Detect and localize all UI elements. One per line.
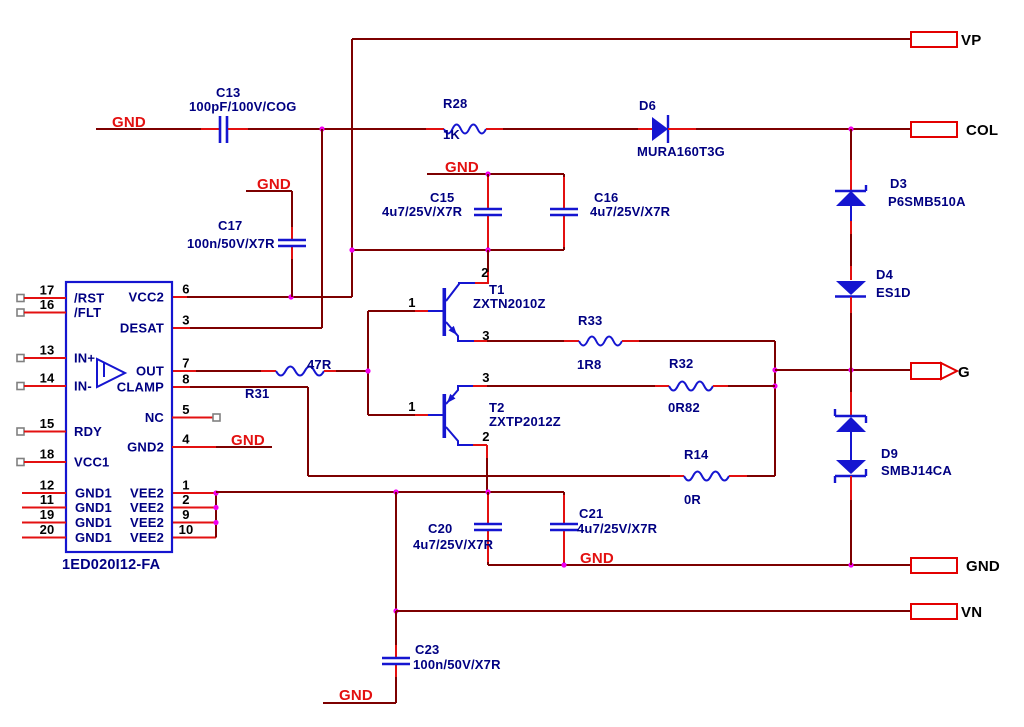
IC pin 5 NC label bbox=[145, 402, 190, 425]
svg-text:CLAMP: CLAMP bbox=[117, 380, 164, 395]
IC pin 2 VEE2 label bbox=[130, 492, 190, 515]
zener diode D3 bbox=[835, 176, 966, 209]
junction base node bbox=[365, 368, 370, 373]
junction VEE2 pin9 bbox=[213, 520, 218, 525]
svg-text:DESAT: DESAT bbox=[120, 321, 164, 336]
svg-text:11: 11 bbox=[40, 492, 54, 507]
svg-text:3: 3 bbox=[482, 370, 489, 385]
svg-text:1: 1 bbox=[408, 295, 415, 310]
svg-text:OUT: OUT bbox=[136, 364, 164, 379]
svg-text:17: 17 bbox=[40, 283, 55, 298]
svg-text:D4: D4 bbox=[876, 267, 894, 282]
capacitor C23 bbox=[382, 611, 501, 703]
svg-text:MURA160T3G: MURA160T3G bbox=[637, 144, 725, 159]
svg-text:RDY: RDY bbox=[74, 424, 102, 439]
wire D4 to G node bbox=[850, 297, 852, 370]
wire C13 to R28 bbox=[248, 128, 426, 130]
svg-text:R14: R14 bbox=[684, 447, 709, 462]
svg-text:14: 14 bbox=[40, 371, 55, 386]
junction VN branch bbox=[393, 489, 398, 494]
op-amp buffer symbol inside IC bbox=[97, 359, 125, 387]
junction VEE2 pin2 bbox=[213, 505, 218, 510]
wire CLAMP pin8 bbox=[172, 387, 308, 476]
diode D4 bbox=[835, 267, 911, 300]
IC pin 1 VEE2 label bbox=[130, 478, 190, 501]
svg-text:4u7/25V/X7R: 4u7/25V/X7R bbox=[382, 204, 463, 219]
svg-text:1: 1 bbox=[182, 478, 189, 493]
wire T2 emitter to R32 bbox=[473, 385, 655, 387]
wire VN vertical bbox=[395, 492, 397, 611]
svg-text:18: 18 bbox=[40, 447, 55, 462]
capacitor C13 bbox=[189, 85, 297, 143]
svg-text:VEE2: VEE2 bbox=[130, 515, 164, 530]
IC pin 9 VEE2 label bbox=[130, 507, 190, 530]
junction C15 top bbox=[485, 171, 490, 176]
svg-text:VEE2: VEE2 bbox=[130, 530, 164, 545]
junction right bus G branch bbox=[772, 367, 777, 372]
svg-text:GND1: GND1 bbox=[75, 530, 112, 545]
IC pin 18 VCC1 bbox=[17, 447, 109, 470]
wire C15-C16 bottom rail bbox=[352, 249, 564, 251]
resistor R14 bbox=[670, 447, 747, 507]
svg-text:9: 9 bbox=[182, 507, 189, 522]
svg-text:GND: GND bbox=[966, 558, 1000, 575]
junction COL node bbox=[848, 126, 853, 131]
IC pin 8 CLAMP label bbox=[117, 372, 190, 395]
svg-text:2: 2 bbox=[182, 492, 189, 507]
IC pin 6 VCC2 label bbox=[129, 282, 190, 305]
capacitor C21 bbox=[550, 492, 658, 565]
svg-text:100n/50V/X7R: 100n/50V/X7R bbox=[187, 236, 275, 251]
svg-text:4: 4 bbox=[182, 432, 190, 447]
svg-text:R32: R32 bbox=[669, 356, 693, 371]
svg-text:VN: VN bbox=[961, 604, 982, 621]
IC U1 1ED020I12-FA body bbox=[62, 282, 172, 573]
svg-text:VCC2: VCC2 bbox=[129, 290, 164, 305]
IC pin 4 GND2 label bbox=[127, 432, 190, 455]
svg-text:0R: 0R bbox=[684, 492, 701, 507]
wire D6 to COL bbox=[696, 128, 911, 130]
connector G bbox=[911, 363, 970, 381]
wire DESAT vertical bbox=[321, 129, 323, 328]
junction T2-C20 node bbox=[485, 489, 490, 494]
IC pin 15 RDY bbox=[17, 416, 102, 439]
connector COL bbox=[911, 122, 998, 139]
capacitor C15 bbox=[382, 174, 502, 250]
wire R33 to right bus bbox=[639, 341, 775, 476]
IC pin 19 GND1 bbox=[22, 507, 112, 530]
IC pin 12 GND1 bbox=[22, 478, 112, 501]
svg-text:C20: C20 bbox=[428, 521, 452, 536]
svg-text:8: 8 bbox=[182, 372, 189, 387]
svg-text:GND1: GND1 bbox=[75, 515, 112, 530]
wire VEE2 pins bus bbox=[172, 493, 216, 538]
svg-text:R33: R33 bbox=[578, 313, 602, 328]
svg-text:G: G bbox=[958, 364, 970, 381]
svg-text:VP: VP bbox=[961, 32, 981, 49]
svg-text:3: 3 bbox=[182, 313, 189, 328]
junction VP rail - cap rail bbox=[349, 247, 354, 252]
IC pin 4 GND2 wire and GND label bbox=[172, 432, 272, 449]
svg-text:13: 13 bbox=[40, 343, 55, 358]
svg-text:4u7/25V/X7R: 4u7/25V/X7R bbox=[577, 521, 658, 536]
svg-text:0R82: 0R82 bbox=[668, 400, 700, 415]
svg-text:ES1D: ES1D bbox=[876, 285, 911, 300]
svg-text:C15: C15 bbox=[430, 190, 454, 205]
svg-text:T1: T1 bbox=[489, 282, 505, 297]
svg-text:20: 20 bbox=[40, 522, 55, 537]
wire D9 to GND rail bbox=[850, 476, 852, 565]
svg-text:10: 10 bbox=[179, 522, 194, 537]
wire T1 emitter to R33 bbox=[474, 340, 564, 342]
node GND label top-left bbox=[96, 114, 201, 131]
svg-text:6: 6 bbox=[182, 282, 189, 297]
wire GND rail bottom bbox=[488, 564, 911, 566]
svg-text:ZXTN2010Z: ZXTN2010Z bbox=[473, 296, 546, 311]
diode D6 bbox=[637, 98, 725, 159]
svg-text:IN-: IN- bbox=[74, 379, 92, 394]
svg-text:C13: C13 bbox=[216, 85, 240, 100]
capacitor C16 bbox=[550, 174, 671, 250]
wire VN horizontal bbox=[396, 610, 911, 612]
junction C21 bottom bbox=[561, 562, 566, 567]
wire DESAT pin3 bbox=[172, 327, 322, 329]
node GND label at C15 bbox=[427, 159, 564, 176]
transistor T2 bbox=[408, 370, 561, 445]
resistor R28 bbox=[426, 96, 503, 142]
svg-text:1R8: 1R8 bbox=[577, 357, 601, 372]
svg-text:5: 5 bbox=[182, 402, 189, 417]
svg-text:7: 7 bbox=[182, 356, 189, 371]
TVS diode D9 bbox=[835, 409, 952, 483]
wire VP net top rail bbox=[352, 39, 911, 297]
svg-text:R28: R28 bbox=[443, 96, 467, 111]
IC pin 3 DESAT label bbox=[120, 313, 190, 336]
junction VEE2 pin1 bbox=[213, 490, 218, 495]
wire to T1 base bbox=[368, 310, 428, 312]
node GND label bottom bbox=[323, 687, 396, 704]
svg-text:D3: D3 bbox=[890, 176, 907, 191]
svg-text:/RST: /RST bbox=[74, 291, 104, 306]
wire R14 to right bus bbox=[747, 475, 775, 477]
junction D9 bottom bbox=[848, 562, 853, 567]
svg-text:VEE2: VEE2 bbox=[130, 486, 164, 501]
wire R31 to base node bbox=[336, 311, 368, 415]
svg-text:C16: C16 bbox=[594, 190, 618, 205]
svg-text:2: 2 bbox=[482, 429, 489, 444]
svg-text:T2: T2 bbox=[489, 400, 505, 415]
junction C15 bottom bbox=[485, 247, 490, 252]
junction right bus R32 bbox=[772, 383, 777, 388]
wire D3 to D4 bbox=[850, 206, 852, 280]
wire COL to D3 bbox=[850, 129, 852, 190]
svg-text:SMBJ14CA: SMBJ14CA bbox=[881, 463, 952, 478]
wire to T2 base bbox=[368, 414, 428, 416]
resistor R33 bbox=[564, 313, 639, 372]
wire to G connector bbox=[775, 369, 911, 371]
svg-text:1K: 1K bbox=[443, 127, 460, 142]
svg-text:GND2: GND2 bbox=[127, 440, 164, 455]
connector GND bbox=[911, 558, 1000, 575]
IC pin 7 OUT label bbox=[136, 356, 190, 379]
IC pin 13 IN+ bbox=[17, 343, 95, 366]
capacitor C20 bbox=[413, 492, 502, 565]
svg-text:1: 1 bbox=[408, 399, 415, 414]
svg-text:P6SMB510A: P6SMB510A bbox=[888, 194, 966, 209]
wire VCC2 pin6 bbox=[172, 296, 352, 298]
junction C13-DESAT node bbox=[319, 126, 324, 131]
junction C17-VCC2 bbox=[288, 294, 293, 299]
svg-text:R31: R31 bbox=[245, 386, 269, 401]
svg-text:GND: GND bbox=[580, 550, 614, 567]
resistor R31 47R bbox=[245, 357, 336, 401]
junction G node main vertical bbox=[848, 367, 853, 372]
svg-text:47R: 47R bbox=[307, 357, 332, 372]
wire G node to D9 bbox=[850, 370, 852, 416]
wire R28 to D6 bbox=[503, 128, 638, 130]
connector VP bbox=[911, 32, 981, 49]
svg-text:4u7/25V/X7R: 4u7/25V/X7R bbox=[413, 537, 494, 552]
IC pin 20 GND1 bbox=[22, 522, 112, 545]
connector VN bbox=[911, 604, 982, 621]
svg-text:1ED020I12-FA: 1ED020I12-FA bbox=[62, 557, 161, 573]
svg-text:GND1: GND1 bbox=[75, 486, 112, 501]
node GND label at C17 bbox=[246, 176, 292, 193]
wire T2 collector down bbox=[473, 445, 487, 492]
transistor T1 bbox=[408, 265, 545, 343]
junction VN-C23 bbox=[393, 608, 398, 613]
IC pin 10 VEE2 label bbox=[130, 522, 193, 545]
svg-text:GND1: GND1 bbox=[75, 500, 112, 515]
svg-text:100n/50V/X7R: 100n/50V/X7R bbox=[413, 657, 501, 672]
svg-text:16: 16 bbox=[40, 297, 55, 312]
svg-text:12: 12 bbox=[40, 478, 55, 493]
svg-text:19: 19 bbox=[40, 507, 55, 522]
svg-text:/FLT: /FLT bbox=[74, 305, 101, 320]
capacitor C17 bbox=[187, 191, 306, 297]
wire CLAMP to R14 bbox=[308, 475, 670, 477]
wire T1 collector to rail bbox=[475, 250, 488, 283]
svg-text:C21: C21 bbox=[579, 506, 603, 521]
svg-text:C23: C23 bbox=[415, 642, 439, 657]
wire VEE2 rail to caps bbox=[216, 491, 564, 493]
svg-text:VCC1: VCC1 bbox=[74, 455, 109, 470]
svg-text:D9: D9 bbox=[881, 446, 898, 461]
svg-text:ZXTP2012Z: ZXTP2012Z bbox=[489, 414, 561, 429]
svg-text:COL: COL bbox=[966, 122, 998, 139]
svg-text:VEE2: VEE2 bbox=[130, 500, 164, 515]
svg-text:IN+: IN+ bbox=[74, 351, 95, 366]
svg-text:GND: GND bbox=[339, 687, 373, 704]
IC pin 16 /FLT bbox=[17, 297, 101, 320]
svg-text:2: 2 bbox=[481, 265, 488, 280]
wire OUT pin7 bbox=[172, 370, 261, 372]
svg-text:4u7/25V/X7R: 4u7/25V/X7R bbox=[590, 204, 671, 219]
svg-text:C17: C17 bbox=[218, 218, 242, 233]
wire R32 to right bus bbox=[728, 385, 775, 387]
IC pin 14 IN- bbox=[17, 371, 92, 394]
IC pin 5 NC wire bbox=[172, 414, 220, 421]
svg-text:100pF/100V/COG: 100pF/100V/COG bbox=[189, 99, 297, 114]
IC pin 17 /RST bbox=[17, 283, 104, 306]
svg-text:D6: D6 bbox=[639, 98, 656, 113]
svg-text:NC: NC bbox=[145, 410, 165, 425]
IC pin 11 GND1 bbox=[22, 492, 112, 515]
svg-text:15: 15 bbox=[40, 416, 55, 431]
svg-text:GND: GND bbox=[231, 432, 265, 449]
resistor R32 bbox=[655, 356, 728, 415]
